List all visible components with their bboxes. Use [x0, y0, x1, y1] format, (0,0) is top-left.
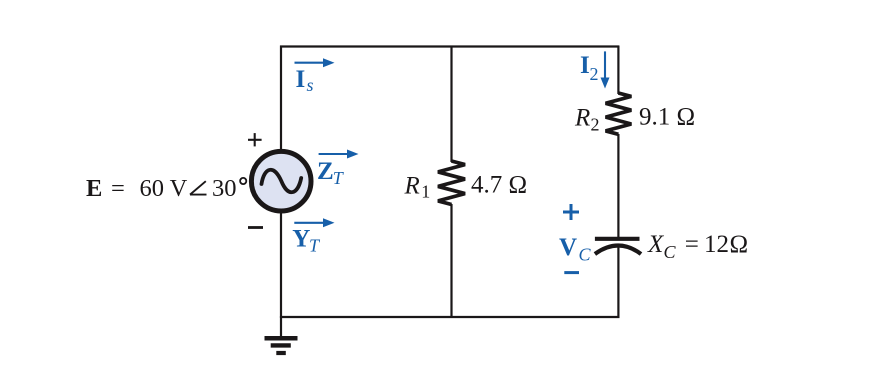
svg-text:9.1 Ω: 9.1 Ω [639, 103, 695, 130]
resistor R1 zigzag [438, 161, 465, 205]
label VC [559, 234, 592, 264]
svg-text:=: = [111, 175, 125, 202]
svg-text:2: 2 [591, 115, 600, 135]
polarity + of source [248, 133, 262, 146]
wire right vertical middle (R2 to capacitor) [617, 134, 619, 238]
capacitor XC [595, 239, 641, 254]
wire middle vertical lower [450, 204, 452, 318]
svg-text:12: 12 [704, 231, 729, 258]
current arrow Is [295, 58, 335, 67]
label R2 [574, 105, 600, 135]
svg-text:T: T [333, 168, 345, 188]
wire top horizontal [280, 45, 619, 47]
svg-text:R: R [574, 105, 590, 132]
voltage source E (AC source circle) [251, 151, 311, 211]
svg-text:I: I [580, 52, 590, 79]
impedance arrow ZT [319, 150, 359, 159]
polarity - of source [248, 226, 263, 229]
resistor R2 zigzag [606, 93, 632, 134]
polarity + of VC [563, 204, 579, 220]
svg-text:V: V [559, 234, 577, 261]
angle symbol in source label [190, 181, 207, 194]
wire right vertical lower (capacitor to bottom) [617, 246, 619, 318]
wire bottom horizontal [280, 316, 620, 318]
svg-text:Y: Y [292, 225, 310, 252]
svg-text:R: R [404, 173, 420, 200]
label E = 60 V angle 30deg [86, 175, 246, 202]
svg-text:=: = [685, 231, 699, 258]
polarity - of VC [564, 271, 579, 274]
svg-text:C: C [664, 242, 677, 262]
wire left vertical upper (top to source) [280, 46, 282, 159]
ground [265, 316, 298, 353]
label Is [296, 66, 314, 95]
label ZT [317, 158, 345, 188]
current arrow I2 [601, 51, 610, 88]
svg-text:60 V: 60 V [140, 175, 188, 202]
svg-text:Ω: Ω [730, 231, 749, 258]
label I2 [580, 52, 599, 84]
svg-text:Z: Z [317, 158, 334, 185]
svg-text:s: s [307, 75, 314, 95]
label R1 [404, 173, 431, 202]
svg-text:4.7 Ω: 4.7 Ω [471, 172, 527, 199]
svg-text:I: I [296, 66, 306, 93]
svg-text:T: T [309, 236, 321, 256]
admittance arrow YT [294, 218, 334, 227]
svg-text:30: 30 [212, 175, 237, 202]
label XC = 12 ohm [647, 231, 748, 262]
label YT [292, 225, 321, 255]
svg-text:X: X [647, 231, 665, 258]
svg-text:E: E [86, 175, 102, 202]
svg-text:C: C [579, 245, 592, 265]
wire left vertical lower (source to bottom) [280, 206, 282, 318]
wire middle vertical upper [450, 46, 452, 163]
wire right vertical upper (top to R2) [617, 46, 619, 95]
svg-text:1: 1 [421, 182, 430, 202]
svg-text:2: 2 [590, 64, 599, 84]
